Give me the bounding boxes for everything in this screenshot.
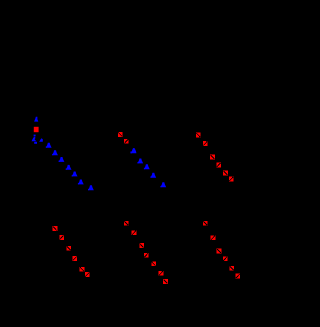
molecule M1: oxygen O1 solid square (34, 127, 39, 132)
chain E oxygen O16 (124, 221, 129, 226)
chain E oxygen O22 (163, 279, 168, 284)
molecule M1: nitrogen cluster N4 (34, 142, 37, 144)
chain A nitrogen N11 (88, 185, 94, 190)
molecule M2: oxygen O2 (118, 132, 123, 137)
chain F oxygen O23 (203, 221, 208, 226)
chain D oxygen O10 (53, 226, 58, 231)
chain C oxygen O6 (210, 155, 215, 160)
chain B nitrogen N14 (144, 164, 150, 169)
chain F oxygen O26 (223, 256, 228, 261)
chain E oxygen O20 (151, 261, 156, 266)
chain A nitrogen N9 (72, 172, 78, 177)
chain F oxygen O28 (236, 274, 241, 279)
chain C oxygen O8 (223, 171, 228, 176)
chain B nitrogen N12 (large blob) (130, 148, 136, 153)
chain C oxygen O4 (196, 133, 201, 138)
chain E oxygen O18 (139, 243, 144, 248)
chain D oxygen O11 (59, 235, 64, 240)
molecule M1: nitrogen cluster N2a (34, 135, 36, 137)
molecule M1: apex nitrogen N1 (34, 117, 38, 122)
chain D oxygen O14 (80, 267, 85, 272)
chain D oxygen O15 (85, 272, 90, 277)
chain C oxygen O7 (216, 163, 221, 168)
chain B nitrogen N13 (137, 159, 143, 164)
chain A nitrogen N5 (46, 143, 52, 148)
chain D oxygen O12 (67, 246, 72, 251)
chain F oxygen O24 (211, 235, 216, 240)
chain B nitrogen N16 (160, 182, 166, 187)
chain A nitrogen N8 (66, 165, 72, 170)
chain E oxygen O21 (159, 271, 164, 276)
chain E oxygen O17 (132, 230, 137, 235)
chain A nitrogen N10 (78, 180, 84, 185)
chain C oxygen O9 (229, 177, 234, 182)
chain A nitrogen N7 (59, 157, 65, 162)
chain D oxygen O13 (73, 256, 78, 261)
molecule M2: oxygen O3 (124, 139, 129, 144)
chain E oxygen O19 (144, 253, 149, 258)
molecule M1: nitrogen cluster N2 (32, 137, 37, 142)
chain A nitrogen N6 (52, 150, 58, 155)
chain B nitrogen N15 (150, 173, 156, 178)
molecule M1: nitrogen cluster N3 (39, 138, 43, 142)
chain F oxygen O25 (217, 249, 222, 254)
chain F oxygen O27 (230, 266, 235, 271)
chain C oxygen O5 (203, 141, 208, 146)
